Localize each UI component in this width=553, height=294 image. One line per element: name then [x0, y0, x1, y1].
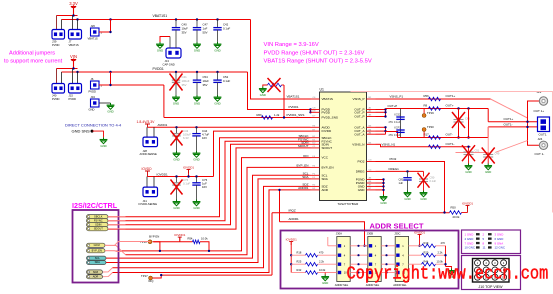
wire VSNS_N row [376, 143, 381, 145]
svg-text:U1: U1 [320, 88, 324, 92]
connector box ADDR SELECT [281, 231, 459, 289]
power arrow IOVDD1 IRQ [462, 212, 468, 214]
ground addr right [446, 267, 452, 269]
capacitor C90 (DNP) [423, 171, 425, 176]
wire VSNS_P row [376, 98, 491, 100]
connector pin SCL [87, 256, 107, 260]
svg-text:SDOUT: SDOUT [94, 227, 103, 231]
svg-text:XCP2: XCP2 [394, 126, 401, 130]
wire IOVDD1 to IC pin [214, 131, 311, 176]
svg-text:IOVDD-SENSE: IOVDD-SENSE [139, 202, 158, 206]
capacitor C76 (DNP) [176, 177, 178, 183]
svg-text:R8: R8 [424, 104, 428, 108]
svg-text:35V: 35V [182, 83, 187, 87]
svg-text:GND: GND [193, 206, 199, 210]
svg-text:0.1uF: 0.1uF [430, 179, 437, 183]
wire OUT- rise [487, 127, 489, 138]
svg-text:OUT_A: OUT_A [354, 132, 365, 136]
wire SDA [102, 179, 311, 263]
svg-text:PVDD_SNS: PVDD_SNS [322, 116, 338, 120]
svg-text:VBAT1S: VBAT1S [69, 43, 79, 47]
svg-text:AVDD1: AVDD1 [158, 123, 168, 127]
svg-text:GND: GND [465, 170, 471, 174]
capacitor C42 [217, 20, 219, 28]
svg-text:R54: R54 [188, 237, 193, 241]
svg-text:GND: GND [89, 108, 95, 112]
wire OUT- stub down [456, 127, 489, 153]
svg-text:TP19: TP19 [427, 111, 434, 115]
wire OUT_P merge [376, 109, 386, 111]
capacitor C66 (DNP) [458, 109, 460, 138]
svg-text:C66: C66 [465, 117, 470, 121]
svg-text:470: 470 [441, 241, 446, 245]
svg-text:CAP GND: CAP GND [163, 62, 175, 66]
wire OUT1- diagonal [496, 141, 528, 153]
wire PGND bus [376, 179, 384, 181]
svg-text:IOVDD1: IOVDD1 [462, 201, 474, 205]
svg-text:ADR: ADR [322, 188, 329, 192]
svg-text:PVDD1_SNS: PVDD1_SNS [287, 113, 305, 117]
connector pin SDIN [87, 223, 109, 227]
svg-text:OUT1+: OUT1+ [504, 117, 514, 121]
ground C90 [423, 191, 425, 193]
svg-text:OUT-: OUT- [446, 133, 453, 137]
capacitor C40 [175, 20, 177, 28]
jumper J40 PVDD [52, 84, 65, 94]
svg-text:2.2k: 2.2k [438, 250, 444, 254]
ground below C76 [176, 200, 178, 202]
svg-text:9 GNA: 9 GNA [495, 241, 504, 245]
svg-text:ADR: ADR [93, 275, 99, 279]
svg-text:J24: J24 [538, 137, 543, 141]
wire PVDD pin pair [310, 110, 312, 113]
wires between strips [350, 245, 395, 274]
header J22 OUT1 [538, 117, 550, 132]
svg-text:GND: GND [420, 197, 426, 201]
svg-text:R44: R44 [424, 259, 429, 263]
wire SCL [102, 175, 311, 258]
svg-text:OUT 1+: OUT 1+ [534, 109, 545, 113]
svg-text:VSNS_N: VSNS_N [352, 142, 364, 146]
svg-text:PVDD: PVDD [322, 110, 331, 114]
connector pin FSYNC [87, 219, 109, 223]
wire GIO2 jog [105, 245, 122, 251]
svg-text:XC52: XC52 [394, 113, 401, 117]
svg-text:IOVDD: IOVDD [322, 129, 332, 133]
svg-text:0.1uF: 0.1uF [223, 26, 230, 30]
svg-text:DIRECT CONNECTION TO 4-4: DIRECT CONNECTION TO 4-4 [65, 122, 122, 127]
ground C51 [468, 164, 470, 166]
svg-text:PIO2: PIO2 [390, 157, 397, 161]
svg-text:SDIN: SDIN [95, 223, 101, 227]
svg-text:PVDD1: PVDD1 [153, 67, 164, 71]
svg-text:16V: 16V [202, 185, 207, 189]
svg-text:VIN: VIN [70, 54, 77, 59]
svg-text:GND SNS: GND SNS [72, 129, 91, 134]
svg-text:25V 0.1uF: 25V 0.1uF [389, 133, 401, 137]
wire SDZ pill jog [103, 268, 113, 272]
ground below C75 [196, 200, 198, 202]
svg-text:BYP_EN: BYP_EN [322, 166, 334, 170]
svg-text:VSNS_P1: VSNS_P1 [390, 94, 404, 98]
svg-text:VBAT1S1: VBAT1S1 [287, 95, 300, 99]
svg-text:1 GND: 1 GND [465, 233, 474, 237]
svg-text:I2S/I2C/CTRL: I2S/I2C/CTRL [72, 201, 118, 210]
wire TP17 row [153, 275, 273, 278]
svg-text:OUT+: OUT+ [446, 104, 454, 108]
test point TP19 [423, 109, 425, 114]
svg-text:GND: GND [404, 197, 410, 201]
wire cross connect [468, 109, 470, 138]
svg-text:PIO2: PIO2 [358, 160, 365, 164]
test point TP20 [423, 132, 425, 138]
svg-text:25V 0.1uF: 25V 0.1uF [389, 120, 401, 124]
ground below C54 [196, 95, 198, 97]
svg-text:0.1uF: 0.1uF [183, 181, 190, 185]
svg-text:TAS2770YBGR: TAS2770YBGR [338, 202, 360, 206]
svg-text:IRQZ: IRQZ [289, 208, 296, 212]
node junction dots rail1 [72, 14, 74, 16]
svg-text:GND: GND [173, 206, 179, 210]
wire PVDD rail to IC [248, 72, 311, 110]
svg-text:SDZ: SDZ [93, 270, 99, 274]
svg-text:BYP EN: BYP EN [149, 235, 159, 239]
wire OUT- row [398, 137, 489, 139]
svg-text:VBAT1S: VBAT1S [322, 97, 333, 101]
svg-text:GND: GND [485, 170, 491, 174]
svg-text:VSNS_N1: VSNS_N1 [382, 143, 396, 147]
svg-text:GND: GND [194, 48, 200, 52]
IC pin names [322, 97, 366, 192]
connector pin ADR [87, 275, 103, 279]
svg-text:VIN Range = 3.9-16V: VIN Range = 3.9-16V [264, 42, 319, 48]
svg-text:7 GND: 7 GND [465, 241, 474, 245]
svg-text:12 GNC: 12 GNC [495, 246, 505, 250]
wire [57, 15, 78, 17]
resistor R54 10.0k [193, 240, 201, 244]
svg-text:SDOUT: SDOUT [322, 146, 333, 150]
wire GIO2 stub [105, 242, 151, 246]
svg-text:1.2k: 1.2k [274, 113, 280, 117]
resistor R66 1.2k [262, 116, 273, 120]
ground below C42 [217, 42, 219, 44]
svg-text:DREG1: DREG1 [389, 167, 400, 171]
svg-text:OUT1+: OUT1+ [446, 94, 456, 98]
jumper J15 PVDD [69, 84, 82, 94]
svg-text:C81: C81 [399, 178, 404, 182]
svg-text:OUT1-: OUT1- [504, 123, 513, 127]
svg-text:IOVDD1: IOVDD1 [157, 173, 169, 177]
svg-text:10.0k: 10.0k [319, 268, 326, 272]
IC pin stubs right [367, 99, 376, 190]
jumper J28 AVDD-SENSE [146, 127, 148, 137]
wire VBAT1S rail to IC [251, 20, 311, 100]
wire jumper pins row2 [56, 69, 58, 84]
wire VBAT1S rail [62, 19, 251, 21]
svg-text:PVDD1: PVDD1 [289, 105, 299, 109]
IC pin numbers [313, 97, 373, 190]
wire PVDD rail [62, 71, 248, 73]
svg-text:SDA: SDA [322, 177, 329, 181]
wire TP17 riser to IRQ rail [271, 213, 273, 275]
wire J34 to ground [99, 102, 111, 104]
node junction dots rail2 [72, 67, 74, 69]
svg-text:470: 470 [319, 251, 324, 255]
power tap AVDD [145, 123, 150, 125]
test point TP16 [148, 240, 152, 244]
capacitor C41 (DNP) [175, 72, 177, 80]
svg-text:to support more current: to support more current [4, 58, 63, 64]
jumper J13 CAP GND [166, 48, 181, 58]
svg-text:GND: GND [380, 201, 386, 205]
svg-text:10.0k: 10.0k [201, 237, 208, 241]
svg-text:GND: GND [194, 101, 200, 105]
ground below C41 [175, 95, 177, 97]
svg-text:1uF: 1uF [399, 181, 404, 185]
svg-text:R25: R25 [297, 260, 302, 264]
ground below C43 [176, 151, 178, 153]
connector pin BYP_EN [87, 249, 106, 253]
wire OUT+ row [386, 108, 489, 110]
wire CAP GND to ground [169, 37, 171, 49]
wire pulldown common [445, 246, 447, 267]
jumper J41 IOVDD-SENSE [146, 177, 148, 188]
ground PGND [383, 195, 385, 197]
wire GPIO row [122, 158, 311, 251]
wire AVDD1 to IC [148, 126, 311, 128]
ground below C44 [196, 151, 198, 153]
svg-text:R19: R19 [424, 241, 429, 245]
wire BYP_EN row [126, 167, 311, 254]
svg-text:J30B: J30B [367, 232, 373, 236]
svg-text:PVDD: PVDD [52, 43, 60, 47]
svg-text:IOVDD1: IOVDD1 [174, 233, 186, 237]
resistor R20 2.2k [409, 254, 422, 256]
svg-text:VBAT1S: VBAT1S [88, 36, 98, 40]
resistor R44 10.0k [409, 263, 422, 265]
IC pin stubs left [311, 99, 320, 190]
svg-text:Copyright:www.eccn.com: Copyright:www.eccn.com [347, 264, 549, 285]
svg-text:GIO2: GIO2 [94, 243, 101, 247]
wire PVDD sense drop [163, 85, 165, 118]
ferrite R17 [429, 136, 441, 140]
ground PVDD sense [263, 85, 268, 87]
svg-text:10 GNC: 10 GNC [465, 246, 475, 250]
svg-text:GND: GND [322, 281, 328, 285]
table connector pinout [462, 230, 521, 254]
svg-text:ADDR SELECT: ADDR SELECT [370, 222, 424, 231]
svg-text:J10 TOP VIEW: J10 TOP VIEW [478, 285, 503, 289]
svg-text:TP17: TP17 [141, 274, 148, 278]
svg-text:OUT1: OUT1 [539, 133, 547, 137]
wire faint VSNS [351, 92, 553, 213]
jumper J7 VBAT1S [69, 30, 82, 40]
svg-text:FSYNC: FSYNC [94, 219, 103, 223]
test point TP17 [149, 276, 153, 280]
svg-text:R66: R66 [257, 113, 263, 117]
svg-text:11: 11 [483, 246, 486, 250]
X component near PVDD sense [282, 84, 285, 86]
X capacitor C49 [487, 153, 489, 164]
capacitor C43 (DNP) [176, 127, 178, 133]
connector pin GIO2 [87, 243, 106, 247]
capacitor XCP2 [396, 129, 404, 131]
svg-text:IOVDD1: IOVDD1 [414, 230, 426, 234]
svg-text:ADDR1: ADDR1 [289, 217, 300, 221]
net labels control pins [296, 134, 309, 190]
svg-text:PVDD: PVDD [52, 97, 60, 101]
svg-text:3.3V: 3.3V [69, 1, 78, 6]
wire BYP_EN riser [153, 242, 160, 251]
wire GND SNS [93, 131, 104, 137]
ground addr left [324, 273, 326, 275]
svg-text:GND: GND [100, 144, 106, 148]
svg-text:PVDD Range (SHUNT OUT) = 2.3-1: PVDD Range (SHUNT OUT) = 2.3-16V [264, 50, 365, 56]
X capacitor C51 [468, 147, 470, 164]
connector pin SDA [87, 261, 107, 265]
svg-text:J30C: J30C [394, 232, 400, 236]
svg-text:4 GND: 4 GND [465, 237, 474, 241]
ground C81 [407, 191, 409, 193]
svg-text:2.2k: 2.2k [319, 260, 325, 264]
capacitor XC52 [400, 109, 402, 138]
resistor R18 470 [291, 254, 305, 256]
svg-text:AVDD-SENSE: AVDD-SENSE [140, 152, 157, 156]
capacitor C54 [196, 72, 198, 80]
wire ADDR1 riser [279, 190, 281, 222]
wire IRQ rail [272, 212, 450, 214]
svg-text:SDA: SDA [95, 260, 101, 264]
ground GND SNS [103, 137, 105, 139]
wire control bundle [108, 144, 311, 224]
wire ADDR1 rail [280, 222, 368, 246]
jumper J39 PVDD [52, 30, 65, 40]
wire jumper pins row1 [56, 16, 58, 30]
wire J26 to rail [99, 31, 111, 33]
wire BYP pill stub [105, 250, 122, 253]
ferrite R56 [429, 97, 441, 101]
ferrite R57 [429, 145, 441, 149]
wire BYP pill jog [105, 251, 126, 255]
capacitor C75 [196, 177, 198, 183]
svg-text:IOVDD: IOVDD [141, 167, 152, 171]
ferrite R8 [429, 107, 441, 111]
capacitor C44 [196, 127, 198, 133]
svg-text:SBCLK: SBCLK [94, 215, 103, 219]
svg-text:VSNS_P: VSNS_P [352, 97, 364, 101]
svg-text:Additional jumpers: Additional jumpers [9, 51, 55, 57]
svg-text:GND: GND [173, 101, 179, 105]
svg-text:GND: GND [358, 188, 366, 192]
resistor R42 10.0k [291, 272, 305, 274]
capacitor C81 [407, 171, 409, 177]
wire addr right IOVDD [419, 235, 421, 246]
wire output bracket [528, 101, 540, 145]
svg-text:OUT1-: OUT1- [446, 142, 455, 146]
svg-text:IOVDD1: IOVDD1 [286, 237, 298, 241]
svg-text:R50: R50 [451, 206, 457, 210]
svg-text:PVDD: PVDD [89, 90, 97, 94]
wire ADR row [113, 190, 311, 273]
wire control bundle [108, 138, 311, 217]
wire DREG [376, 170, 424, 172]
connector box I2S [73, 210, 119, 283]
svg-text:GND: GND [173, 157, 179, 161]
svg-text:R42: R42 [297, 268, 302, 272]
wire OUT1+ pair [488, 121, 538, 123]
svg-text:R20: R20 [424, 250, 429, 254]
svg-text:6 GND: 6 GND [495, 237, 504, 241]
wire A pin1 riser [327, 237, 329, 246]
resistor R50 20.0k [450, 211, 462, 215]
ground CAP GND [159, 42, 161, 44]
wire control bundle [108, 141, 311, 221]
resistor R25 2.2k [291, 263, 305, 265]
svg-text:6.3V: 6.3V [183, 136, 189, 140]
svg-text:C51: C51 [475, 149, 480, 153]
ground C49 [487, 164, 489, 166]
wire PIO2 to IRQ rail [376, 162, 445, 213]
svg-text:IOVDD1: IOVDD1 [183, 165, 195, 169]
capacitor C47 [196, 20, 198, 28]
svg-text:16V: 16V [202, 136, 207, 140]
svg-text:35V: 35V [203, 83, 208, 87]
connector pin SBCLK [87, 215, 109, 219]
svg-text:DREG: DREG [356, 170, 365, 174]
wire OUT1+ link [491, 99, 528, 118]
svg-text:VBAT1S Range (SHUNT OUT) = 2.3: VBAT1S Range (SHUNT OUT) = 2.3-5.5V [264, 59, 372, 65]
svg-text:PVDD: PVDD [69, 97, 77, 101]
wire ADR pill jog [103, 273, 113, 277]
svg-text:J26: J26 [91, 24, 96, 28]
svg-text:OUT+P: OUT+P [388, 104, 398, 108]
svg-text:IRQ: IRQ [149, 279, 155, 283]
svg-text:VCC: VCC [322, 156, 329, 160]
svg-text:35V: 35V [182, 30, 187, 34]
svg-text:BYP_EN: BYP_EN [92, 249, 102, 253]
wire SDZ [113, 186, 311, 267]
svg-text:GND: GND [107, 109, 113, 113]
svg-text:GND: GND [260, 93, 266, 97]
svg-text:OUT 1-: OUT 1- [535, 152, 545, 156]
wire IOVDD1 [148, 176, 214, 178]
wire OUT+ drop [487, 109, 489, 122]
wire addr left pullups [290, 242, 292, 273]
svg-text:0.1uF: 0.1uF [223, 79, 230, 83]
svg-text:1.8-4V/3.3V: 1.8-4V/3.3V [137, 120, 156, 124]
resistor R19 470 [409, 245, 422, 247]
svg-text:J34: J34 [91, 95, 96, 99]
ground below C47 [196, 42, 198, 44]
wire R54 to node [200, 242, 209, 251]
connector pin SDOUT [87, 227, 109, 231]
svg-text:TP16: TP16 [140, 240, 147, 244]
wire OUT1- pair [488, 126, 538, 128]
svg-text:GND: GND [193, 157, 199, 161]
svg-text:GND: GND [157, 48, 163, 52]
connector pin SDZ [87, 270, 103, 274]
svg-text:OUT_P: OUT_P [354, 115, 364, 119]
svg-text:TP20: TP20 [427, 125, 434, 129]
wire J6 to rail [99, 84, 164, 86]
svg-text:R18: R18 [297, 251, 302, 255]
svg-text:GND: GND [214, 48, 220, 52]
svg-text:C90: C90 [430, 176, 435, 180]
svg-text:J6: J6 [91, 77, 94, 81]
svg-text:R56: R56 [424, 94, 430, 98]
capacitor C52 [217, 72, 219, 80]
svg-text:GND: GND [214, 101, 220, 105]
